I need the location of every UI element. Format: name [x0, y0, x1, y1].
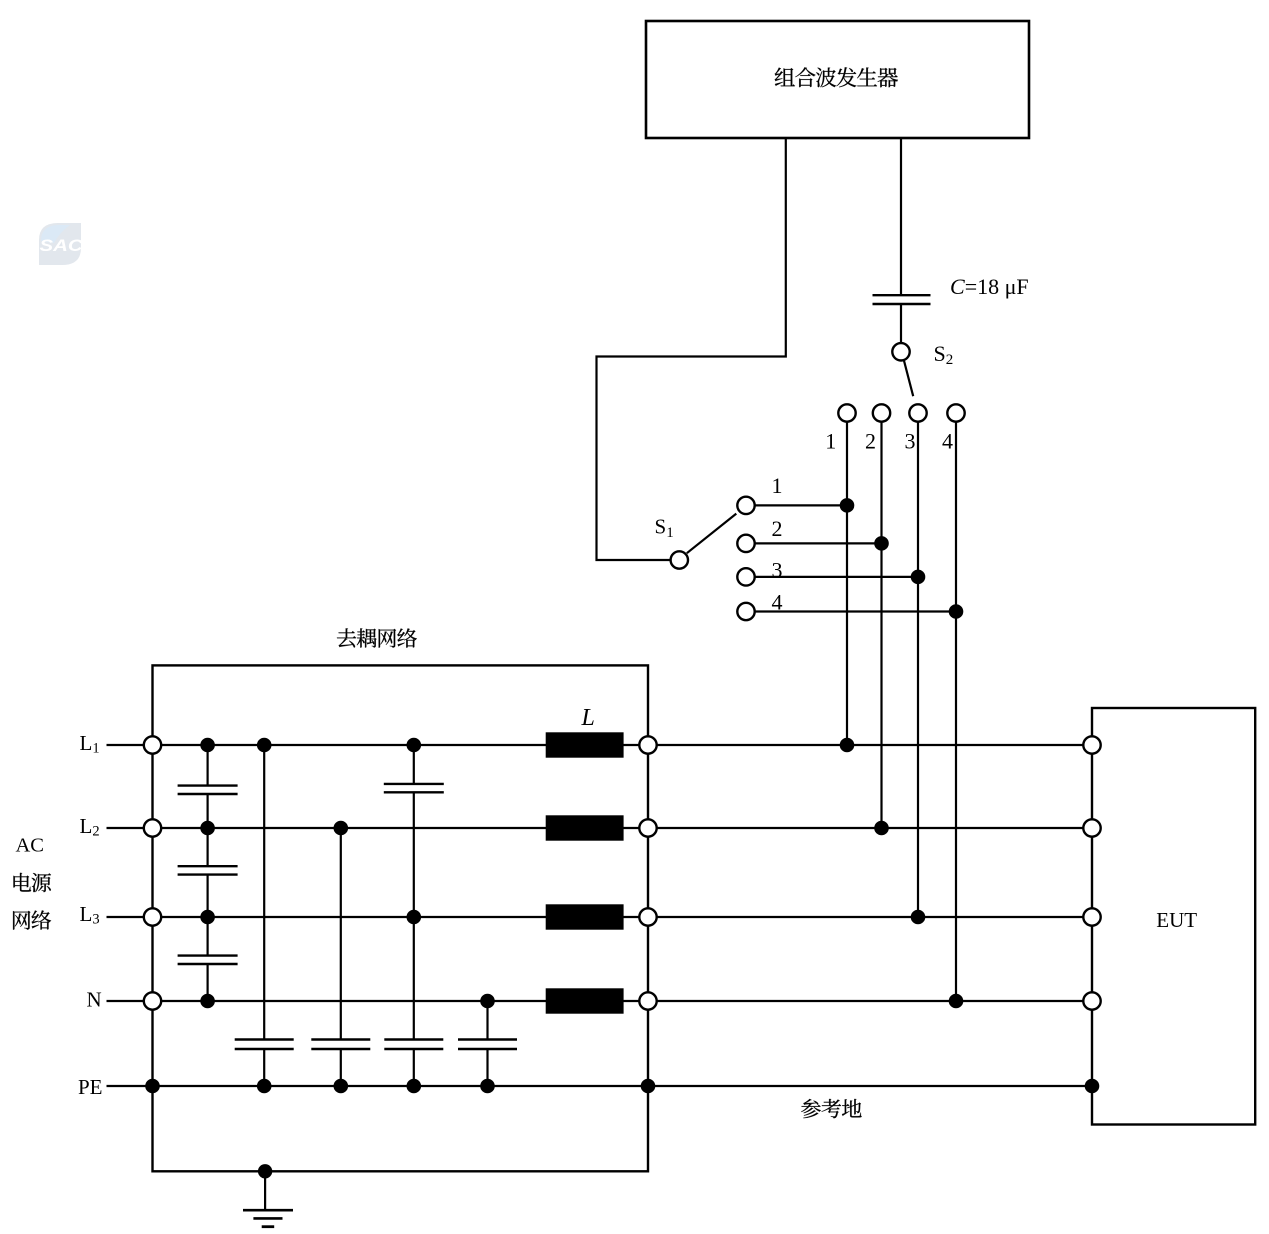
- terminal N at x=152.5: [144, 992, 161, 1009]
- junction: line 1 joins L1: [840, 738, 855, 753]
- junction PE at x=648: [641, 1079, 656, 1094]
- wire generator left output down-left to S1 common: [597, 138, 786, 560]
- capacitor L2-L3: [178, 866, 238, 874]
- terminal L1 at x=152.5: [144, 736, 161, 753]
- junction v5-N: [480, 994, 495, 1009]
- switch S2: [892, 343, 913, 396]
- terminal L1 at x=648: [639, 736, 656, 753]
- label 参考地 (reference ground): [801, 1099, 861, 1118]
- svg-text:EUT: EUT: [1156, 908, 1197, 932]
- wire S1 contact 1 to line 1: [755, 504, 847, 506]
- inductor L on L1: [546, 732, 624, 757]
- ground symbol: [243, 1210, 293, 1227]
- junction: S1 contact 2 wire joins line 2: [874, 536, 889, 551]
- svg-text:L: L: [581, 705, 595, 731]
- switch S1 contact 3: [737, 568, 754, 585]
- svg-text:PE: PE: [78, 1075, 103, 1099]
- junction: S1 contact 1 wire joins line 1: [840, 498, 855, 513]
- svg-text:3: 3: [905, 429, 916, 454]
- junction v5-PE: [480, 1079, 495, 1094]
- junction PE at x=152.5: [145, 1079, 160, 1094]
- junction: line 3 joins L3: [911, 910, 926, 925]
- inductor L on N: [546, 988, 624, 1013]
- wire coupling line 3 down to L3: [917, 422, 919, 917]
- wire v5 (x=487.5) N to PE with cap: [486, 1001, 488, 1086]
- wire N line: [107, 1000, 1093, 1002]
- junction v3-L2: [334, 821, 349, 836]
- svg-text:AC: AC: [16, 835, 44, 857]
- wire L3 line: [107, 916, 1093, 918]
- junction v3-PE: [334, 1079, 349, 1094]
- svg-text:N: N: [87, 988, 102, 1012]
- junction: line 4 joins N: [949, 994, 964, 1009]
- terminal N at x=1092: [1083, 992, 1100, 1009]
- inductor L on L2: [546, 815, 624, 840]
- junction: line 2 joins L2: [874, 821, 889, 836]
- terminal N at x=648: [639, 992, 656, 1009]
- capacitor L1-L2: [178, 786, 238, 794]
- terminal L2 at x=1092: [1083, 819, 1100, 836]
- terminal L3 at x=1092: [1083, 908, 1100, 925]
- junction v4-L1: [407, 738, 422, 753]
- svg-text:1: 1: [825, 429, 836, 454]
- svg-text:C=18 μF: C=18 μF: [950, 274, 1029, 299]
- junction v2-PE: [257, 1079, 272, 1094]
- capacitor v4 L1-L2: [384, 784, 444, 792]
- SAC watermark logo: [39, 223, 83, 265]
- terminal L1 at x=1092: [1083, 736, 1100, 753]
- switch S1 contact 2: [737, 535, 754, 552]
- capacitor to PE #2: [311, 1040, 370, 1050]
- switch S1 common contact: [671, 514, 737, 569]
- junction v1 at y=828: [200, 821, 215, 836]
- wire v2 (x=264.2) L1 to PE with cap: [263, 745, 265, 1086]
- junction: S1 contact 4 wire joins line 4: [949, 604, 964, 619]
- wire S1 contact 3 to line 3: [755, 576, 918, 578]
- junction ground node on box bottom: [258, 1164, 272, 1178]
- junction v1 at y=917: [200, 910, 215, 925]
- wire coupling line 4 down to N: [955, 422, 957, 1001]
- terminal L3 at x=648: [639, 908, 656, 925]
- wire generator right output down to capacitor C: [900, 138, 902, 295]
- wire v3 (x=340.8) L2 to PE with cap: [340, 828, 342, 1086]
- combination wave generator box: [646, 21, 1029, 138]
- svg-text:2: 2: [865, 429, 876, 454]
- terminal L3 at x=152.5: [144, 908, 161, 925]
- capacitor to PE #1: [235, 1040, 294, 1050]
- wire capacitor C to switch S2: [900, 304, 902, 343]
- coupling terminals 1-4: [838, 404, 964, 421]
- terminal L2 at x=648: [639, 819, 656, 836]
- wire v1 (x=207.6) L1 to N with caps: [207, 745, 209, 1001]
- wire coupling line 1 down to L1: [846, 422, 848, 745]
- junction v4-L3: [407, 910, 422, 925]
- label 去耦网络: [337, 628, 417, 647]
- svg-text:1: 1: [772, 473, 783, 498]
- wire coupling line 2 down to L2: [880, 422, 882, 828]
- junction PE at x=1092: [1085, 1079, 1100, 1094]
- capacitor to PE #4: [458, 1040, 517, 1050]
- junction v1 at y=1001: [200, 994, 215, 1009]
- terminal L2 at x=152.5: [144, 819, 161, 836]
- junction v1 at y=745: [200, 738, 215, 753]
- wire L1 line: [107, 744, 1093, 746]
- svg-text:4: 4: [942, 429, 953, 454]
- junction: S1 contact 3 wire joins line 3: [911, 570, 926, 585]
- wire L2 line: [107, 827, 1093, 829]
- junction v4-PE: [407, 1079, 422, 1094]
- svg-text:SAC: SAC: [40, 236, 84, 255]
- decoupling network box 去耦网络: [153, 665, 649, 1171]
- junction v2-L1: [257, 738, 272, 753]
- svg-text:2: 2: [772, 516, 783, 541]
- EUT box: [1092, 708, 1255, 1125]
- label 电源: [13, 873, 51, 892]
- capacitor C1 (C=18uF): [873, 295, 931, 304]
- svg-text:3: 3: [772, 558, 783, 583]
- switch S1 contact 4: [737, 603, 754, 620]
- inductor L on L3: [546, 904, 624, 929]
- capacitor L3-N: [178, 956, 238, 964]
- wire S1 contact 2 to line 2: [755, 542, 882, 544]
- label 组合波发生器: [775, 67, 898, 87]
- capacitor to PE #3: [384, 1040, 443, 1050]
- switch S1 contact 1: [737, 497, 754, 514]
- wire S1 contact 4 to line 4: [755, 610, 956, 612]
- svg-text:4: 4: [772, 590, 783, 615]
- wire to ground: [264, 1171, 266, 1210]
- wire v4 (x=413.8) L1 to PE with caps: [413, 745, 415, 1086]
- label 网络: [13, 910, 51, 929]
- wire PE line: [107, 1085, 1093, 1087]
